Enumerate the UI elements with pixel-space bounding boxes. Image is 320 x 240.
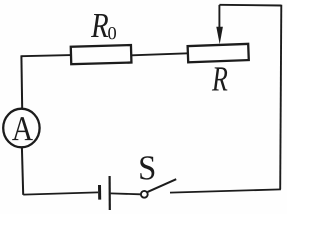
wire bottom-left horizontal [23, 192, 98, 194]
battery long plate [108, 176, 110, 210]
wiper arrowhead [216, 27, 223, 44]
battery short plate [98, 185, 101, 200]
wire bottom-right horizontal [170, 189, 281, 192]
wire top-left horizontal [21, 55, 71, 56]
label R0 [91, 14, 108, 37]
wire top from wiper to right corner [219, 4, 281, 7]
label S [140, 156, 154, 179]
wire battery to switch [111, 192, 141, 195]
wire right vertical [280, 5, 281, 190]
wire left vertical lower [22, 147, 23, 195]
resistor R0 [71, 45, 132, 64]
wire R0 to rheostat [132, 53, 188, 55]
label R [212, 67, 227, 90]
switch pivot [141, 191, 148, 198]
wire left vertical upper [20, 55, 23, 109]
ammeter A [3, 109, 39, 148]
rheostat R body [188, 44, 249, 62]
switch blade [148, 179, 177, 192]
wiper arrow shaft [218, 5, 220, 30]
